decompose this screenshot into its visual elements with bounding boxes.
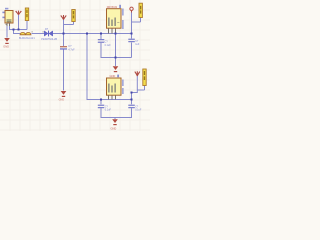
IC U1 right-side vertical labels xyxy=(122,9,123,16)
IC U1 xyxy=(107,9,122,29)
wire: C6 branch to bottom gnd xyxy=(115,100,132,118)
wire: C2 branch down to ground xyxy=(63,34,65,91)
capacitor C6 xyxy=(128,105,142,112)
capacitor C2 xyxy=(60,45,75,51)
ground GND2 xyxy=(59,91,67,101)
pin number ticks xyxy=(31,31,34,32)
svg-text:GND: GND xyxy=(3,45,9,49)
resistor R3 xyxy=(72,10,75,22)
svg-text:0.1uF: 0.1uF xyxy=(135,109,142,112)
svg-text:GND: GND xyxy=(111,127,117,131)
svg-text:GND: GND xyxy=(110,74,116,78)
IC U2 xyxy=(107,78,122,95)
IC U2 pins xyxy=(109,95,116,99)
resistor R2 xyxy=(139,3,142,17)
wire: power port PW2 stem and R3 link xyxy=(64,20,74,34)
svg-text:0.1uF: 0.1uF xyxy=(105,44,112,47)
svg-text:PESD5V0L2B: PESD5V0L2B xyxy=(41,38,57,41)
svg-text:BLM18AG121: BLM18AG121 xyxy=(19,37,35,40)
power port PW2 xyxy=(61,15,66,20)
svg-text:DRV5032: DRV5032 xyxy=(107,6,118,9)
wire: C3 branch and gnd rail y57.5 xyxy=(101,34,132,58)
power circle PW4 xyxy=(130,7,133,10)
ground GND4 xyxy=(111,119,118,130)
svg-text:1uF: 1uF xyxy=(135,43,140,46)
capacitor C5 xyxy=(98,105,112,112)
power port PW3 xyxy=(135,71,140,76)
ground GND3 (arrow above U2) xyxy=(110,66,120,78)
power port PW1 (wave/antenna) xyxy=(16,11,22,15)
resistor R1 xyxy=(25,8,28,21)
wire: connector pin1 down to ground xyxy=(6,26,8,38)
wire: long L branch x87 to bottom rail xyxy=(87,34,132,100)
TVS diode D1 xyxy=(44,31,52,37)
resistor R4 xyxy=(143,69,146,86)
svg-text:4.7uF: 4.7uF xyxy=(68,48,75,51)
wire: main horizontal rail xyxy=(32,33,132,35)
capacitor C4 xyxy=(128,39,140,47)
wire: R1 bottom stub xyxy=(26,21,28,30)
capacitor C3 xyxy=(98,39,111,47)
ground GND1 xyxy=(3,38,10,49)
connector J1 xyxy=(2,8,13,23)
wire: power circle stem, R2 link, right vertical xyxy=(132,13,141,58)
wire: power port PW3 stem, R4 link bottom right xyxy=(132,76,145,100)
wire: GND3 stem xyxy=(115,34,117,67)
wire: antenna power stem xyxy=(18,15,20,30)
junction dots xyxy=(13,29,133,101)
svg-text:0.1uF: 0.1uF xyxy=(105,109,112,112)
connector J1 pins xyxy=(7,23,10,26)
wire: connector pin2 to upper rail y29.5 xyxy=(10,26,28,30)
svg-text:GND: GND xyxy=(59,98,65,101)
IC U2 right-side vertical labels xyxy=(122,80,123,87)
wire: GND4 stub xyxy=(114,118,116,120)
IC U1 pins xyxy=(109,28,116,33)
wire: C5 branch to bottom gnd xyxy=(101,100,115,118)
wire: drop from upper rail to main rail xyxy=(14,30,21,34)
inductor L1 xyxy=(20,33,31,35)
